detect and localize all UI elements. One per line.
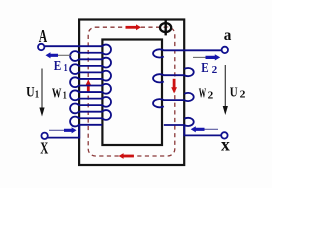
flux arrow left leg (up): [85, 80, 91, 93]
svg-text:a: a: [224, 27, 232, 44]
svg-text:1: 1: [35, 89, 39, 100]
terminal A: [38, 44, 44, 50]
svg-text:E: E: [54, 58, 62, 73]
label flux Phi (drawn): [160, 20, 171, 35]
svg-text:2: 2: [212, 65, 218, 76]
flux path dashed loop: [88, 27, 175, 156]
svg-text:1: 1: [63, 90, 67, 101]
EMF arrow e1 (points left): [46, 52, 72, 58]
svg-text:X: X: [40, 139, 48, 158]
svg-text:x: x: [221, 135, 230, 155]
svg-text:W: W: [52, 86, 62, 101]
svg-text:A: A: [39, 26, 47, 46]
svg-text:2: 2: [240, 89, 246, 100]
secondary winding W2 (right leg) with lead wire to a: [153, 49, 222, 126]
current arrow i2 (points left, above x wire): [191, 126, 218, 132]
wire x terminal to winding W2: [184, 125, 221, 135]
voltage arrow U1 (vertical, arrowhead down): [39, 69, 44, 117]
svg-text:U: U: [26, 85, 35, 101]
voltage arrow U2 (vertical, arrowhead down): [223, 65, 228, 115]
current arrow i1 (points right, above X wire): [49, 127, 77, 133]
svg-text:W: W: [199, 86, 207, 101]
flux arrow bottom (left): [119, 153, 134, 159]
svg-text:1: 1: [64, 63, 68, 74]
terminal a: [222, 47, 228, 53]
svg-text:E: E: [201, 60, 208, 75]
EMF arrow e2 (points right): [193, 54, 220, 60]
terminal x: [221, 132, 227, 138]
transformer core outer outline: [79, 20, 184, 166]
flux arrow right leg (down): [171, 79, 177, 94]
primary winding W1 (left leg) with lead wire from A: [45, 45, 111, 127]
transformer core window: [102, 40, 162, 146]
terminal X: [41, 133, 47, 139]
flux arrow top (right): [126, 24, 142, 30]
wire X terminal to winding W1: [48, 125, 80, 138]
svg-text:2: 2: [208, 90, 214, 101]
svg-text:U: U: [230, 86, 238, 101]
